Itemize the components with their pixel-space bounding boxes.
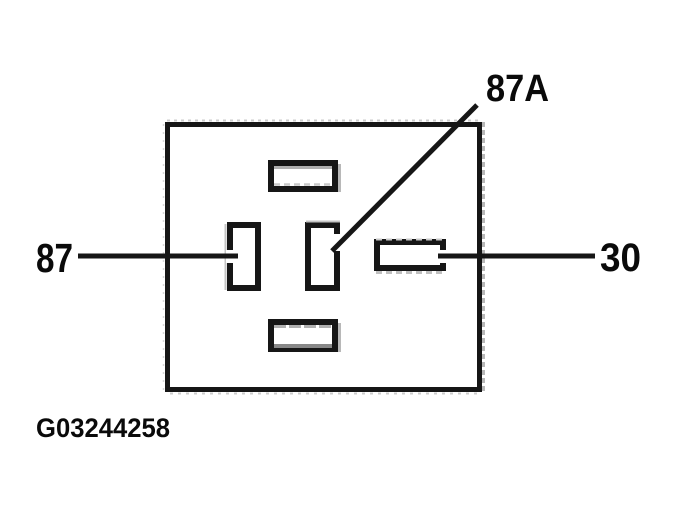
svg-text:30: 30	[600, 236, 641, 280]
pin cavity 87A (center vertical)	[306, 222, 340, 289]
lead line 87A (diagonal)	[332, 105, 477, 251]
svg-text:G03244258: G03244258	[36, 413, 170, 443]
gap in pin 87A right border for lead line	[334, 234, 341, 251]
relay connector body outline	[168, 125, 480, 390]
scan shadow right of body outline	[482, 122, 485, 392]
pin cavity top	[271, 163, 340, 192]
lead line 30	[438, 254, 595, 259]
svg-text:87A: 87A	[486, 68, 549, 110]
scan shadow left of body outline	[163, 124, 165, 392]
scan shadow below body outline	[170, 393, 482, 395]
svg-text:87: 87	[36, 235, 73, 281]
gap in pin 87 left border for lead line	[226, 250, 234, 263]
pin cavity 87 (left vertical)	[226, 224, 259, 290]
pin cavity bottom	[271, 322, 340, 352]
scan shadow above body outline	[167, 120, 482, 122]
pin cavity 30 (right horizontal)	[376, 240, 445, 273]
gap in pin 30 right border for lead line	[439, 250, 447, 263]
lead line 87	[78, 254, 238, 259]
